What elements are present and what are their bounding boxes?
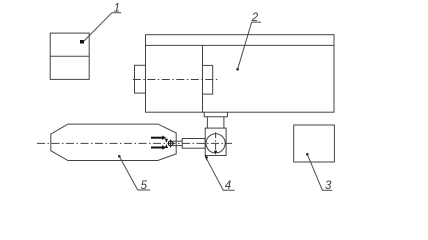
clamp arrow bottom shaft xyxy=(151,147,163,149)
clamp arrow bottom head xyxy=(162,145,166,149)
box 3 xyxy=(294,125,335,162)
neck right line xyxy=(223,117,225,128)
workpiece 5 octagon xyxy=(51,124,176,160)
housing 2 top band line xyxy=(146,44,335,46)
leader 2 dot xyxy=(236,68,239,71)
neck left line xyxy=(206,117,208,128)
ball xyxy=(168,141,173,146)
box 1 divider line xyxy=(50,55,89,57)
wheel down arrowhead xyxy=(214,151,217,155)
clamp arrow top head xyxy=(162,136,166,140)
wheel circle xyxy=(206,134,225,153)
leader 4 arrowhead xyxy=(205,155,209,160)
drawbar rod xyxy=(182,139,205,149)
leader 1 xyxy=(84,13,122,42)
motor boss on left xyxy=(135,65,146,93)
flange under housing xyxy=(204,112,227,117)
svg-text:1: 1 xyxy=(114,3,120,15)
svg-text:2: 2 xyxy=(251,12,259,24)
leader 3 xyxy=(307,154,332,190)
svg-text:3: 3 xyxy=(325,180,332,192)
drawbar narrow top line xyxy=(173,140,182,142)
clamp arrow bottom up-head xyxy=(165,144,168,148)
shaft boss on divider xyxy=(203,65,213,94)
svg-text:4: 4 xyxy=(225,180,231,192)
clamp arrow top down-head xyxy=(165,139,168,143)
leader 4 xyxy=(206,157,235,190)
drawbar narrow bottom line xyxy=(173,145,182,147)
leader 5 xyxy=(119,156,150,190)
leader 5 dot xyxy=(118,155,121,158)
ball vertical tick xyxy=(170,140,172,148)
box 1 xyxy=(50,33,89,79)
clamp arrow top shaft xyxy=(151,137,163,139)
clamp box 4 xyxy=(205,128,226,155)
wheel vertical centerline xyxy=(215,132,217,154)
svg-text:5: 5 xyxy=(141,180,148,192)
callout square on box 1 xyxy=(80,40,84,44)
leader 3 dot xyxy=(306,153,309,156)
housing 2 outer rectangle xyxy=(146,35,335,113)
leader 2 xyxy=(238,22,261,69)
housing 2 inner divider xyxy=(202,45,204,112)
spindle centerline xyxy=(133,79,219,81)
main centerline xyxy=(37,142,232,144)
